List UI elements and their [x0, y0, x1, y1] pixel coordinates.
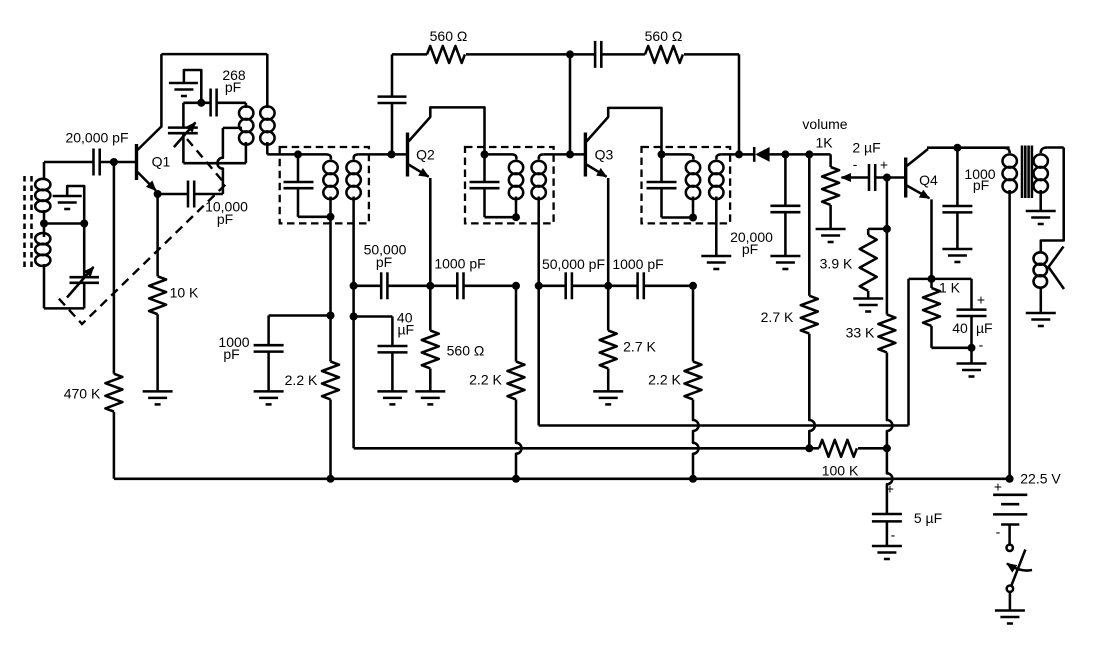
svg-text:-: - — [853, 156, 858, 172]
svg-text:2.7 K: 2.7 K — [761, 309, 794, 325]
svg-text:1 K: 1 K — [939, 279, 961, 295]
svg-text:pF: pF — [376, 254, 392, 270]
svg-text:+: + — [880, 157, 888, 173]
svg-text:+: + — [994, 479, 1002, 495]
svg-text:pF: pF — [217, 211, 233, 227]
svg-text:100 K: 100 K — [822, 463, 859, 479]
svg-text:-: - — [891, 527, 896, 543]
svg-text:560 Ω: 560 Ω — [645, 28, 683, 44]
svg-text:1K: 1K — [815, 135, 833, 151]
svg-text:Q2: Q2 — [416, 147, 435, 163]
svg-text:2 µF: 2 µF — [852, 140, 880, 156]
svg-text:2.2 K: 2.2 K — [648, 372, 681, 388]
svg-text:-: - — [979, 337, 984, 353]
svg-text:33 K: 33 K — [846, 324, 875, 340]
svg-text:pF: pF — [225, 79, 241, 95]
svg-text:40: 40 — [952, 320, 968, 336]
svg-text:pF: pF — [223, 346, 239, 362]
svg-text:10 K: 10 K — [170, 285, 199, 301]
svg-text:20,000 pF: 20,000 pF — [65, 129, 128, 145]
svg-text:+: + — [886, 481, 894, 497]
svg-text:2.7 K: 2.7 K — [623, 339, 656, 355]
svg-text:+: + — [977, 292, 985, 308]
svg-text:560 Ω: 560 Ω — [430, 28, 468, 44]
svg-text:Q4: Q4 — [919, 172, 938, 188]
svg-text:µF: µF — [397, 322, 414, 338]
svg-text:pF: pF — [742, 241, 758, 257]
svg-text:-: - — [996, 524, 1001, 540]
svg-text:50,000 pF: 50,000 pF — [542, 256, 605, 272]
svg-text:µF: µF — [976, 320, 993, 336]
svg-text:2.2 K: 2.2 K — [469, 372, 502, 388]
svg-text:3.9 K: 3.9 K — [820, 255, 853, 271]
svg-text:1000 pF: 1000 pF — [612, 256, 663, 272]
svg-text:Q1: Q1 — [152, 154, 171, 170]
svg-text:560 Ω: 560 Ω — [447, 343, 485, 359]
svg-text:22.5 V: 22.5 V — [1020, 471, 1061, 487]
svg-text:Q3: Q3 — [595, 147, 614, 163]
svg-text:470 K: 470 K — [64, 386, 101, 402]
svg-text:1000 pF: 1000 pF — [434, 256, 485, 272]
svg-text:pF: pF — [973, 177, 989, 193]
svg-text:5 µF: 5 µF — [914, 510, 942, 526]
svg-text:2.2 K: 2.2 K — [285, 372, 318, 388]
svg-text:volume: volume — [802, 116, 847, 132]
